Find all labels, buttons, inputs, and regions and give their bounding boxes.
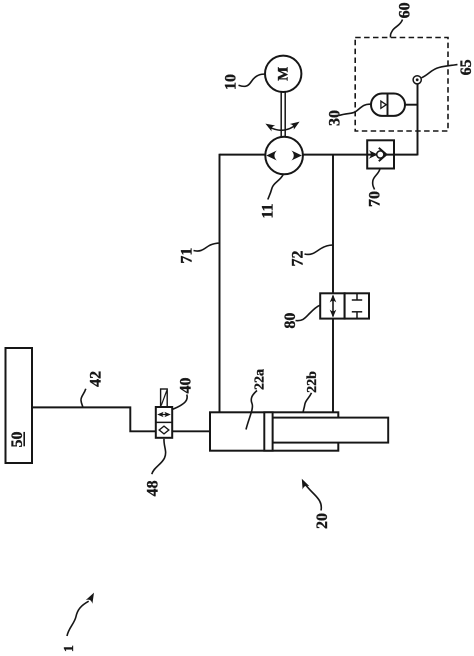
- svg-text:60: 60: [397, 2, 414, 18]
- svg-text:11: 11: [259, 203, 276, 218]
- svg-text:71: 71: [179, 248, 196, 264]
- svg-text:40: 40: [178, 378, 195, 394]
- svg-text:1: 1: [62, 645, 77, 652]
- svg-text:30: 30: [326, 110, 343, 126]
- svg-text:20: 20: [314, 513, 331, 529]
- svg-text:80: 80: [282, 313, 299, 329]
- svg-text:72: 72: [290, 251, 307, 267]
- svg-text:70: 70: [367, 191, 384, 207]
- svg-text:10: 10: [223, 74, 240, 90]
- svg-text:48: 48: [145, 480, 162, 496]
- svg-text:22b: 22b: [305, 371, 320, 393]
- svg-text:M: M: [276, 67, 292, 81]
- svg-text:42: 42: [88, 371, 105, 387]
- svg-text:22a: 22a: [253, 369, 268, 390]
- svg-text:65: 65: [458, 59, 474, 75]
